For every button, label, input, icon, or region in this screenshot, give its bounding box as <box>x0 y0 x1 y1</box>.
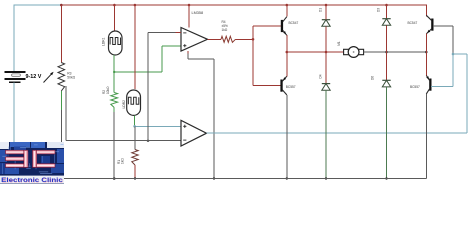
svg-text:BC547: BC547 <box>289 21 299 25</box>
svg-text:1kΩ: 1kΩ <box>121 158 125 164</box>
svg-text:LDR1: LDR1 <box>102 37 106 46</box>
svg-text:9-12 V: 9-12 V <box>26 74 42 80</box>
svg-text:D1: D1 <box>319 8 323 12</box>
svg-text:Electronic Clinic: Electronic Clinic <box>1 177 63 184</box>
svg-text:LM358: LM358 <box>192 11 204 15</box>
svg-text:BC547: BC547 <box>408 21 418 25</box>
svg-text:BC557: BC557 <box>410 85 420 89</box>
svg-text:1kΩ: 1kΩ <box>222 28 228 32</box>
svg-text:D3: D3 <box>377 8 381 12</box>
svg-text:10kΩ: 10kΩ <box>106 86 110 94</box>
svg-text:D6: D6 <box>371 76 375 80</box>
svg-text:50kΩ: 50kΩ <box>67 75 75 79</box>
svg-text:D4: D4 <box>319 74 323 78</box>
svg-text:LDR2: LDR2 <box>122 100 126 109</box>
svg-text:BC557: BC557 <box>286 85 296 89</box>
svg-text:M1: M1 <box>337 41 341 46</box>
